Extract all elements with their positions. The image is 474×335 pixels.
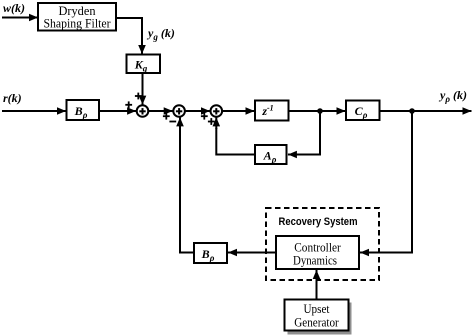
wire z^-1 to Cp [289, 110, 346, 112]
sign + above S1 (top) [135, 95, 142, 97]
block Bp (recovery) [194, 243, 227, 263]
wire Kg to sum S1 [142, 73, 144, 105]
block Dryden Shaping Filter [38, 3, 116, 31]
block Upset Generator shadow [288, 303, 352, 335]
svg-text:Dynamics: Dynamics [293, 253, 337, 268]
summing junction S2 [173, 105, 185, 117]
svg-text:Recovery System: Recovery System [279, 216, 358, 228]
svg-text:r(k): r(k) [3, 91, 22, 105]
wire r(k) to Bp input block [2, 110, 66, 112]
svg-text:Generator: Generator [294, 315, 339, 330]
wire Controller Dynamics to Bp (recovery) [228, 252, 276, 254]
sign + left of S2 [163, 115, 170, 117]
node after z^-1 [317, 108, 323, 114]
wire S1 to S2 [148, 110, 173, 112]
block Ap [255, 145, 287, 165]
sign + below S3 [208, 121, 215, 123]
wire Bp to sum S1 [99, 110, 136, 112]
svg-text:yρ (k): yρ (k) [438, 88, 467, 104]
dashed box Recovery System [266, 208, 379, 280]
wire Upset Generator to Controller Dynamics [316, 272, 318, 300]
block Upset Generator [285, 300, 349, 331]
svg-text:w(k): w(k) [3, 1, 25, 15]
block Controller Dynamics [276, 236, 359, 269]
node yp [409, 108, 415, 114]
sign + left of S3 [201, 115, 208, 117]
svg-text:Shaping Filter: Shaping Filter [44, 17, 112, 31]
wire Cp to output yp(k) [380, 110, 472, 112]
wire w(k) to Dryden Shaping Filter [2, 17, 38, 19]
block Kg [127, 55, 161, 74]
wire node to Ap (feedback down-left) [296, 111, 320, 155]
block z^-1 [255, 101, 289, 121]
sign + left of S1 [125, 104, 132, 106]
wire yp node down to Controller Dynamics [370, 111, 412, 253]
wire S2 to S3 [185, 110, 210, 112]
wire Ap to S3 (up) [216, 128, 255, 155]
sign - below S2 [169, 121, 176, 123]
svg-text:yg (k): yg (k) [146, 26, 175, 42]
block Cp [346, 101, 380, 121]
wire Bp (recovery) up to S2 [180, 128, 194, 253]
summing junction S1 [137, 105, 149, 117]
block Bp (input) [67, 100, 100, 120]
summing junction S3 [211, 105, 223, 117]
wire S3 to z^-1 [222, 110, 255, 112]
wire Dryden to Kg [116, 18, 142, 45]
